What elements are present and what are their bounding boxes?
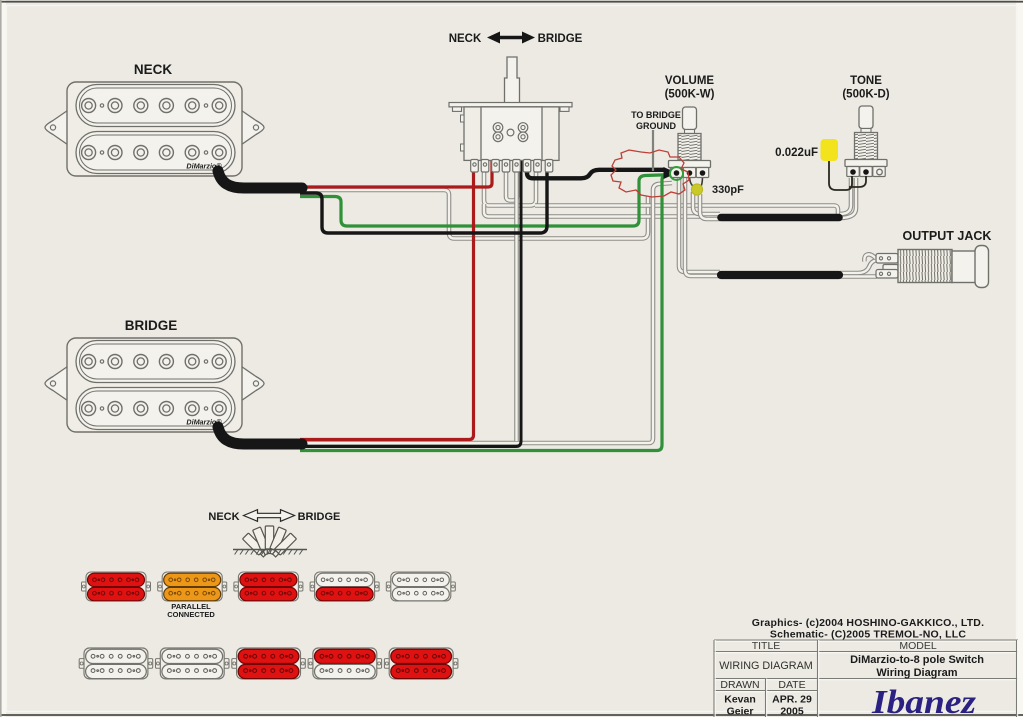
svg-text:NECK: NECK	[208, 511, 239, 523]
svg-text:DRAWN: DRAWN	[720, 679, 759, 691]
svg-text:330pF: 330pF	[712, 184, 744, 196]
svg-text:Wiring Diagram: Wiring Diagram	[876, 667, 957, 679]
svg-text:Schematic- (C)2005 TREMOL-NO,: Schematic- (C)2005 TREMOL-NO, LLC	[770, 629, 966, 641]
svg-text:BRIDGE: BRIDGE	[125, 318, 178, 333]
svg-text:Graphics- (c)2004 HOSHINO-GAKK: Graphics- (c)2004 HOSHINO-GAKKICO., LTD.	[752, 617, 984, 629]
svg-text:Ibanez: Ibanez	[871, 684, 977, 717]
svg-text:NECK: NECK	[134, 62, 173, 77]
svg-text:APR. 29: APR. 29	[772, 694, 812, 706]
svg-text:TONE: TONE	[850, 75, 882, 87]
svg-text:VOLUME: VOLUME	[665, 75, 715, 87]
svg-text:TITLE: TITLE	[752, 640, 781, 652]
svg-text:DiMarzio-to-8 pole Switch: DiMarzio-to-8 pole Switch	[850, 654, 984, 666]
svg-text:Kevan: Kevan	[724, 694, 756, 706]
svg-text:Geier: Geier	[727, 706, 754, 717]
svg-text:2005: 2005	[780, 706, 804, 717]
svg-text:(500K-D): (500K-D)	[842, 89, 889, 101]
svg-text:TO BRIDGE: TO BRIDGE	[631, 110, 681, 120]
svg-text:GROUND: GROUND	[636, 121, 676, 131]
svg-text:BRIDGE: BRIDGE	[298, 511, 341, 523]
svg-text:MODEL: MODEL	[899, 640, 937, 652]
svg-text:(500K-W): (500K-W)	[665, 89, 715, 101]
svg-text:NECK: NECK	[449, 33, 482, 45]
svg-text:0.022uF: 0.022uF	[775, 147, 818, 159]
svg-text:DATE: DATE	[778, 679, 805, 691]
svg-text:OUTPUT JACK: OUTPUT JACK	[903, 229, 992, 243]
svg-text:BRIDGE: BRIDGE	[538, 33, 583, 45]
svg-text:CONNECTED: CONNECTED	[167, 610, 215, 619]
svg-text:WIRING DIAGRAM: WIRING DIAGRAM	[719, 660, 813, 672]
